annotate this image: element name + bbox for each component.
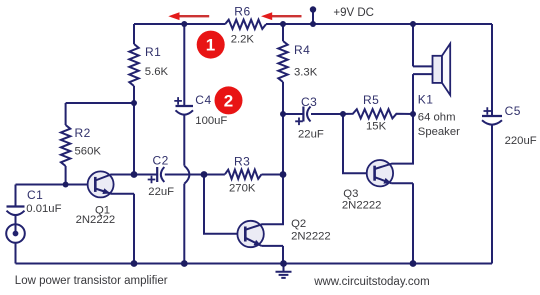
red arrow 2 <box>261 12 302 20</box>
resistor R1 <box>129 44 138 86</box>
svg-text:1: 1 <box>206 36 215 55</box>
svg-text:270K: 270K <box>229 183 256 195</box>
svg-text:R1: R1 <box>145 45 161 59</box>
svg-text:K1: K1 <box>418 93 434 107</box>
svg-text:R3: R3 <box>234 154 250 168</box>
svg-text:2: 2 <box>224 92 233 111</box>
wire top rail right of R6 <box>266 23 492 25</box>
wire R2 branch vertical <box>65 103 67 185</box>
svg-text:+9V DC: +9V DC <box>333 7 374 19</box>
resistor R2 <box>61 125 70 166</box>
wire R4 branch vertical <box>282 24 284 175</box>
wire Q2 base path <box>204 175 245 234</box>
ground <box>276 264 292 278</box>
svg-text:560K: 560K <box>75 146 102 158</box>
svg-text:C2: C2 <box>153 154 169 168</box>
svg-text:64 ohm: 64 ohm <box>418 111 456 123</box>
capacitor C3 <box>283 107 343 126</box>
wire R1 branch vertical <box>133 24 135 175</box>
svg-text:5.6K: 5.6K <box>145 66 169 78</box>
wire C5 branch right vertical <box>491 24 493 264</box>
svg-text:C5: C5 <box>505 104 521 118</box>
svg-text:3.3K: 3.3K <box>294 66 318 78</box>
resistor R6 <box>225 20 266 29</box>
svg-text:22uF: 22uF <box>298 128 324 140</box>
speaker K1 <box>433 44 451 96</box>
svg-text:R5: R5 <box>363 93 379 107</box>
capacitor C5 <box>482 107 502 124</box>
svg-text:2N2222: 2N2222 <box>76 214 116 226</box>
wire +9V stub <box>312 10 314 24</box>
wire bottom rail <box>16 263 493 265</box>
input terminal J1 <box>6 224 25 263</box>
node dots <box>63 6 417 267</box>
svg-text:www.circuitstoday.com: www.circuitstoday.com <box>313 276 429 288</box>
svg-text:2N2222: 2N2222 <box>342 199 382 211</box>
capacitor C1 <box>7 185 25 225</box>
svg-text:22uF: 22uF <box>148 186 174 198</box>
resistor R3 <box>204 170 283 179</box>
wire Q3 base path <box>343 114 375 173</box>
svg-text:Low power transistor amplifier: Low power transistor amplifier <box>15 275 168 287</box>
svg-text:Q2: Q2 <box>291 218 306 230</box>
wire top rail left of R6 <box>134 23 225 25</box>
resistor R5 <box>343 109 413 118</box>
transistor Q3 <box>367 74 413 263</box>
capacitor C4 with wire hop <box>174 24 193 264</box>
svg-text:2N2222: 2N2222 <box>291 231 331 243</box>
wire R2 top horizontal <box>66 102 134 104</box>
wire speaker bottom stub <box>413 73 433 75</box>
wire speaker top feed <box>413 24 433 66</box>
capacitor C2 <box>134 167 204 183</box>
svg-text:100uF: 100uF <box>195 115 227 127</box>
svg-text:2.2K: 2.2K <box>231 33 255 45</box>
svg-text:C3: C3 <box>301 95 317 109</box>
svg-text:R6: R6 <box>234 5 250 19</box>
red marker 1 <box>197 31 225 59</box>
svg-text:Speaker: Speaker <box>418 126 460 138</box>
resistor R4 <box>278 41 287 82</box>
svg-text:C1: C1 <box>27 188 43 202</box>
svg-text:R2: R2 <box>75 126 91 140</box>
wire input base rail <box>16 184 96 186</box>
svg-text:0.01uF: 0.01uF <box>26 203 61 215</box>
svg-text:15K: 15K <box>366 121 387 133</box>
red marker 2 <box>215 86 243 114</box>
svg-text:R4: R4 <box>294 43 310 57</box>
svg-text:C4: C4 <box>195 93 211 107</box>
red arrow 1 <box>168 12 209 20</box>
transistor Q2 <box>237 175 283 264</box>
transistor Q1 <box>88 171 134 263</box>
svg-text:220uF: 220uF <box>505 135 537 147</box>
svg-text:Q3: Q3 <box>343 188 358 200</box>
